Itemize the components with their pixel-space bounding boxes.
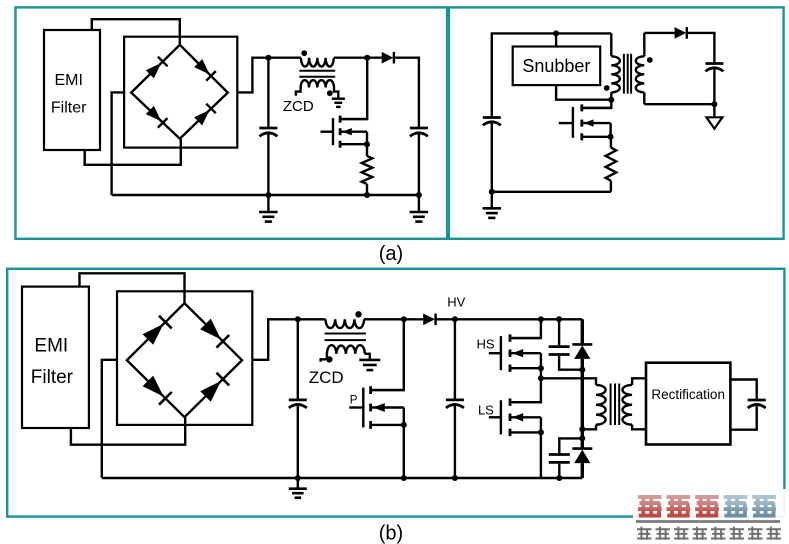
output wire top (b)	[730, 380, 756, 399]
wire drain vertical (a2)	[583, 100, 611, 108]
node output ground (a2)	[711, 101, 717, 107]
output rail secondary (a2)	[644, 32, 674, 34]
wire diode to output cap (a)	[394, 58, 419, 127]
svg-text:EMI: EMI	[34, 336, 68, 357]
svg-text:(a): (a)	[379, 243, 403, 265]
wire LS source to bottom rail (b)	[540, 432, 542, 478]
bulk capacitor C3 (a2)	[483, 116, 501, 119]
node upper cap-diode junction (b)	[579, 367, 585, 373]
top rail primary loop (a2)	[492, 33, 612, 116]
watermark small characters 射频和天线设计专家	[637, 527, 652, 540]
svg-text:HV: HV	[447, 295, 465, 310]
ZCD secondary left stub (a)	[296, 88, 301, 96]
bridge diode D1 (a) upper-left	[146, 63, 161, 78]
output capacitor C9 (b)	[748, 399, 766, 402]
wire EMI top to bridge AC1 (a)	[92, 19, 180, 45]
wire bridge DC+ stub to top rail (b)	[252, 319, 325, 360]
wire clamp column crossing switch rail (b)	[581, 370, 584, 430]
node lower cap bottom (b)	[556, 475, 562, 481]
bridge diode D4 (a) lower-right	[194, 110, 209, 125]
wire LS drain vertical (b)	[511, 378, 541, 402]
bridge rectifier outer box (b)	[117, 291, 252, 425]
bottom rail (b)	[102, 477, 583, 479]
wire P drain vertical (b)	[372, 319, 404, 390]
node HV	[452, 316, 458, 322]
node bulk cap top (b)	[295, 316, 301, 322]
bridge diode D10 (b) lower-right	[200, 381, 221, 402]
svg-text:Snubber: Snubber	[522, 56, 590, 76]
wire ZCD secondary to ground (a)	[334, 88, 338, 99]
wire EMI bottom to bridge AC2 (a)	[85, 139, 181, 165]
transformer core (b)	[325, 333, 366, 335]
LLC transformer secondary (b)	[632, 378, 646, 385]
node output cap bottom (a)	[416, 192, 422, 198]
bridge diode D9 (b) lower-left	[143, 376, 164, 397]
wire drain vertical (a)	[342, 58, 368, 119]
bridge rectifier diamond (a)	[131, 45, 228, 139]
watermark backdrop glow	[633, 489, 786, 519]
node resonant cap top (b)	[556, 316, 562, 322]
svg-text:Rectification: Rectification	[651, 387, 725, 402]
ZCD secondary winding (a)	[301, 80, 334, 87]
wire snubber top (a2)	[555, 33, 557, 46]
Rectification block (b)	[646, 363, 730, 445]
output capacitor C2 (a)	[410, 127, 428, 130]
output wire bottom (b)	[730, 405, 756, 430]
MOSFET LS (b)	[489, 416, 501, 418]
ZCD secondary winding (b)	[327, 345, 365, 354]
primary phase dot (a2)	[604, 85, 610, 91]
transformer core (b out)	[610, 384, 612, 426]
resonant capacitor C8 lower (b)	[559, 438, 582, 453]
svg-text:Filter: Filter	[51, 99, 87, 116]
ground symbol left (a)	[267, 195, 269, 212]
watermark underline bar	[636, 520, 780, 523]
transformer core (a2)	[623, 54, 625, 94]
boost inductor primary winding (b)	[326, 319, 365, 328]
top rail mid (b)	[364, 318, 423, 320]
EMI filter block (b)	[22, 287, 89, 428]
node P source bottom (b)	[401, 475, 407, 481]
ZCD ground symbol (a)	[332, 97, 345, 99]
node switch (b)	[538, 375, 544, 381]
watermark big characters 易迪拓培训	[638, 496, 662, 518]
bulk capacitor C1 (a)	[267, 58, 269, 127]
MOSFET Q1 (a)	[321, 130, 333, 132]
svg-text:EMI: EMI	[54, 72, 82, 89]
MOSFET HS (b)	[489, 352, 501, 354]
node HV cap bottom (b)	[452, 475, 458, 481]
transformer core (a)	[299, 70, 335, 72]
ZCD ground symbol (b)	[359, 359, 380, 362]
top rail after coil (a)	[334, 57, 382, 59]
bridge diode D8 (b) upper-right	[200, 319, 221, 340]
svg-text:Filter: Filter	[31, 367, 74, 388]
svg-text:HS: HS	[476, 337, 494, 352]
bottom rail (a)	[112, 194, 419, 196]
LLC transformer primary (b)	[596, 385, 606, 425]
ZCD secondary phase dot (a)	[327, 90, 333, 96]
bridge diode D2 (a) upper-right	[194, 59, 209, 74]
Snubber block (a2)	[513, 47, 601, 86]
node primary bottom junction (a2)	[608, 97, 614, 103]
output bottom rail (a2)	[644, 103, 714, 105]
HV bus capacitor C6 (b)	[454, 319, 456, 398]
node ground (b)	[295, 475, 301, 481]
panel (a) left border box	[16, 7, 449, 238]
wire diode to output cap (a2)	[687, 33, 715, 62]
boost diode D11 (b)	[423, 314, 435, 326]
svg-text:ZCD: ZCD	[283, 98, 314, 115]
bottom rail (a2)	[492, 191, 611, 193]
panel (b) border box	[7, 269, 784, 517]
clamp diode D12 upper (b)	[581, 319, 584, 344]
node HS drain (b)	[538, 316, 544, 322]
node MOSFET drain branch (a)	[364, 55, 370, 61]
wire ZCD secondary to ground (b)	[365, 354, 370, 359]
bridge diode D3 (a) lower-left	[146, 106, 161, 121]
ground symbol (a2)	[489, 189, 495, 195]
chassis ground triangle (a2)	[713, 104, 715, 117]
node resistor bottom (a)	[364, 192, 370, 198]
top rail HV (b)	[436, 318, 583, 320]
resonant capacitor C7 upper (b)	[558, 319, 560, 345]
output diode D6 (a2)	[675, 27, 687, 39]
svg-text:(b): (b)	[379, 523, 403, 544]
node P-MOSFET drain branch (b)	[401, 316, 407, 322]
boost diode D5 (a)	[382, 52, 394, 64]
panel (a) right border box	[448, 7, 784, 238]
node lower cap tap (b)	[579, 435, 585, 441]
svg-text:P: P	[350, 395, 358, 407]
wire HS drain vertical (b)	[511, 319, 541, 338]
flyback transformer primary (a2)	[610, 33, 612, 56]
wire bridge DC+ stub to top rail (a)	[237, 58, 301, 93]
switch node rail (b)	[541, 378, 596, 385]
bulk capacitor C5 (b)	[297, 319, 299, 398]
node snubber top (a2)	[553, 30, 559, 36]
resistor R2 (a2)	[610, 137, 612, 148]
ground symbol (b)	[297, 478, 299, 488]
clamp diode D13 lower (b)	[581, 429, 584, 448]
wire EMI top to bridge AC1 (b)	[80, 273, 185, 303]
secondary phase dot (a2)	[647, 57, 653, 63]
wire snubber bottom to primary bottom (a2)	[556, 85, 611, 100]
wire EMI bottom to bridge AC2 (b)	[71, 417, 185, 445]
primary phase dot (b)	[355, 311, 361, 317]
EMI filter block (a)	[44, 30, 100, 150]
wire HS source to switch node (b)	[540, 368, 542, 378]
node bulk cap top (a)	[265, 55, 271, 61]
bridge rectifier outer box (a)	[124, 37, 237, 148]
ZCD secondary phase dot (b)	[326, 356, 332, 362]
bridge diode D7 (b) upper-left	[143, 324, 164, 345]
flyback transformer secondary (a2)	[643, 33, 645, 56]
primary phase dot (a)	[301, 50, 307, 56]
output capacitor C4 (a2)	[705, 62, 723, 65]
panel divider between (a) panels	[446, 7, 450, 238]
wire bridge DC- stub to bottom rail (b)	[102, 360, 117, 478]
resistor R1 (a)	[366, 144, 368, 156]
wire bridge DC- stub to bottom rail (a)	[112, 92, 125, 195]
bridge rectifier diamond (b)	[127, 303, 242, 417]
node bulk cap bottom / ground (a)	[265, 192, 271, 198]
ground symbol right (a)	[418, 195, 420, 212]
MOSFET Q2 (a2)	[559, 122, 573, 124]
node transformer primary bottom (b)	[579, 426, 585, 432]
MOSFET P (b)	[349, 406, 363, 408]
boost inductor primary winding (a)	[301, 58, 334, 67]
wire P source to bottom rail (b)	[403, 425, 405, 478]
svg-text:LS: LS	[478, 403, 494, 418]
ZCD secondary left stub (b)	[321, 354, 327, 362]
svg-text:ZCD: ZCD	[309, 368, 344, 387]
